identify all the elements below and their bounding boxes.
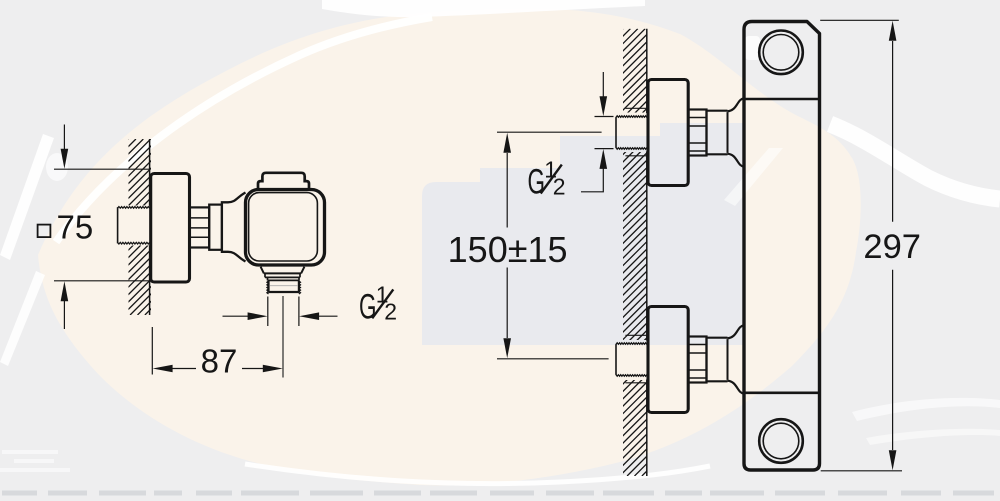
white S-band right	[830, 124, 1000, 199]
dimension 150±15: extension lines	[497, 132, 609, 359]
cream blob	[38, 8, 861, 485]
knurled nut (top inlet)	[688, 110, 706, 156]
top white strip	[322, 0, 645, 17]
label G1/2 (left view)	[359, 281, 397, 326]
svg-text:297: 297	[863, 228, 921, 266]
white diagonal near bar	[724, 148, 783, 206]
svg-text:150±15: 150±15	[448, 229, 568, 270]
top port circle	[759, 31, 803, 75]
svg-text:87: 87	[201, 343, 238, 380]
union shaft (bottom inlet)	[707, 338, 728, 382]
top cap (left view)	[258, 173, 309, 190]
left white streaks	[0, 134, 54, 260]
dimension 297: extension lines	[820, 20, 902, 471]
escutcheon plate (left view, side)	[151, 174, 190, 283]
fillets into bar (top inlet)	[728, 98, 745, 111]
svg-text:G: G	[528, 163, 546, 202]
knurled nut (left view)	[190, 207, 210, 247]
wall face line (left view)	[149, 139, 151, 315]
mixer body / handle (left view)	[246, 190, 325, 266]
central gray letter panel	[422, 123, 745, 345]
G1/2 bottom arrow with leader	[581, 169, 603, 192]
dimension 297: line and arrows	[892, 41, 894, 450]
svg-text:G: G	[359, 287, 377, 326]
dimension 87: wall-face extension line	[151, 327, 153, 375]
escutcheon (bottom inlet)	[648, 307, 688, 413]
threaded wall plug (left view)	[117, 207, 119, 243]
G1/2 extension lines (left view)	[268, 297, 299, 327]
dimension square-75: bottom arrow	[63, 299, 65, 329]
G1/2 top arrow	[602, 72, 604, 97]
wall face line (right view)	[646, 29, 648, 476]
fillets into bar (bottom inlet)	[728, 325, 745, 338]
union shaft (top inlet)	[707, 111, 728, 155]
svg-text:75: 75	[57, 209, 94, 246]
threaded wall plug (top inlet)	[615, 117, 617, 148]
white bottom boundary	[245, 464, 710, 484]
square symbol	[38, 225, 51, 238]
flared neck into body (left view)	[222, 193, 246, 262]
connector cylinder (left view)	[209, 205, 222, 250]
dimension 87: line and arrows	[172, 368, 264, 370]
bar section line bottom	[744, 391, 820, 394]
svg-text:2: 2	[553, 174, 566, 200]
label G1/2 (right view)	[528, 157, 566, 202]
G1/2 threaded outlet (left view)	[267, 281, 301, 294]
G1/2 arrows (left view)	[223, 315, 250, 317]
bottom port circle	[759, 419, 803, 463]
dimension square-75: extension lines	[54, 169, 149, 281]
G1/2 thread dimension (right view): extension lines	[595, 117, 614, 149]
dimension 150±15: line and arrows	[506, 153, 508, 338]
white band along top-left edge	[56, 17, 432, 242]
escutcheon (top inlet)	[648, 80, 688, 186]
knurled nut (bottom inlet)	[688, 337, 706, 383]
outlet centerline	[282, 296, 284, 378]
threaded wall plug (bottom inlet)	[615, 344, 617, 375]
bottom dashed band	[2, 491, 994, 496]
thermostatic bar body (right view)	[744, 22, 820, 471]
svg-text:2: 2	[384, 299, 397, 325]
bar section line top	[744, 98, 820, 101]
dimension square-75: top arrow	[63, 125, 65, 152]
bottom-right white streaks	[852, 398, 1000, 421]
hatch band boundary lines at plugs	[625, 108, 646, 383]
bottom outlet steps (left view)	[261, 267, 305, 274]
handle face inner line	[249, 193, 318, 261]
